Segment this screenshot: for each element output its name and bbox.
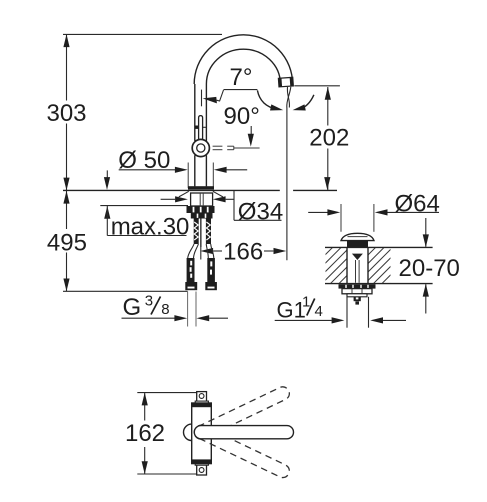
drain cap dome [341,233,374,247]
plan view bottom tab [195,463,208,475]
drain washer [339,284,376,288]
drain tailpipe [347,297,369,328]
svg-text:202: 202 [309,124,349,151]
label 7 degrees [202,64,258,106]
handle pivot axis symbol [213,146,260,150]
plan view lever [194,426,293,439]
swivel arc right [292,95,314,113]
flexible hoses [188,244,214,258]
plan view body [192,403,212,464]
svg-text:166: 166 [223,238,263,265]
label G 3/8 [122,292,229,327]
dimension max.30 [100,206,189,241]
svg-text:1: 1 [302,294,310,311]
dimension D64 [308,190,440,231]
counter hatching right [339,246,428,284]
center stud [200,219,201,260]
svg-text:90°: 90° [224,103,260,130]
water stream centerline [287,87,291,260]
riser joint line [195,126,207,129]
below-deck washer band [187,206,215,213]
dimension 303 extension line top [63,33,222,35]
svg-text:Ø64: Ø64 [395,190,440,217]
plan view dimension 162 [125,393,197,474]
svg-text:162: 162 [125,420,165,447]
spout arch outer wall [194,35,292,86]
svg-text:4: 4 [315,303,323,320]
swivel arc left [257,90,283,113]
drain valve seat [352,254,363,260]
plan view top tab [195,392,208,404]
threaded shank tubes [194,219,211,245]
lever handle blade [199,116,203,141]
riser tube walls [195,84,207,186]
drain lock nut [342,289,372,294]
spout aerator tip [278,77,293,87]
spout arch inner wall [206,49,280,85]
svg-text:max.30: max.30 [111,214,190,241]
drain stub [354,297,361,305]
pop-up rod [356,260,360,283]
dimension D34 [161,190,284,225]
svg-text:7°: 7° [230,64,253,91]
hose fitting right [205,258,217,290]
counter cross-section [325,247,433,283]
plan view dashed lever up [192,385,291,442]
plan view hub bulge [184,424,192,440]
countertop deck line [63,189,337,191]
dimension 495 bottom extension line [63,290,188,292]
plan view dashed lever down [192,423,291,480]
deck hatch ticks [179,191,223,197]
label 90 degrees [224,103,260,147]
dimension 495 [47,191,87,291]
dimension D50 [104,147,247,190]
counter hatching left [296,246,385,284]
dimension 20-70 [399,218,460,314]
faucet base bar [188,186,214,189]
svg-text:8: 8 [161,301,169,318]
handle ball joint [192,139,209,156]
svg-text:3: 3 [145,292,153,309]
svg-text:495: 495 [47,230,87,257]
dimension 202 [294,86,349,190]
svg-text:20-70: 20-70 [399,255,460,282]
dimension 303 [46,34,86,190]
svg-text:Ø34: Ø34 [238,198,283,225]
below-deck lock nut [191,213,213,219]
mounting nut box [191,193,213,206]
label G1 1/4 [275,294,406,324]
drain collar band [347,294,367,297]
hose fitting left [185,258,197,290]
svg-text:G: G [123,294,142,321]
dimension 166 [200,238,286,265]
svg-text:303: 303 [46,100,86,127]
drain body walls [347,247,368,283]
